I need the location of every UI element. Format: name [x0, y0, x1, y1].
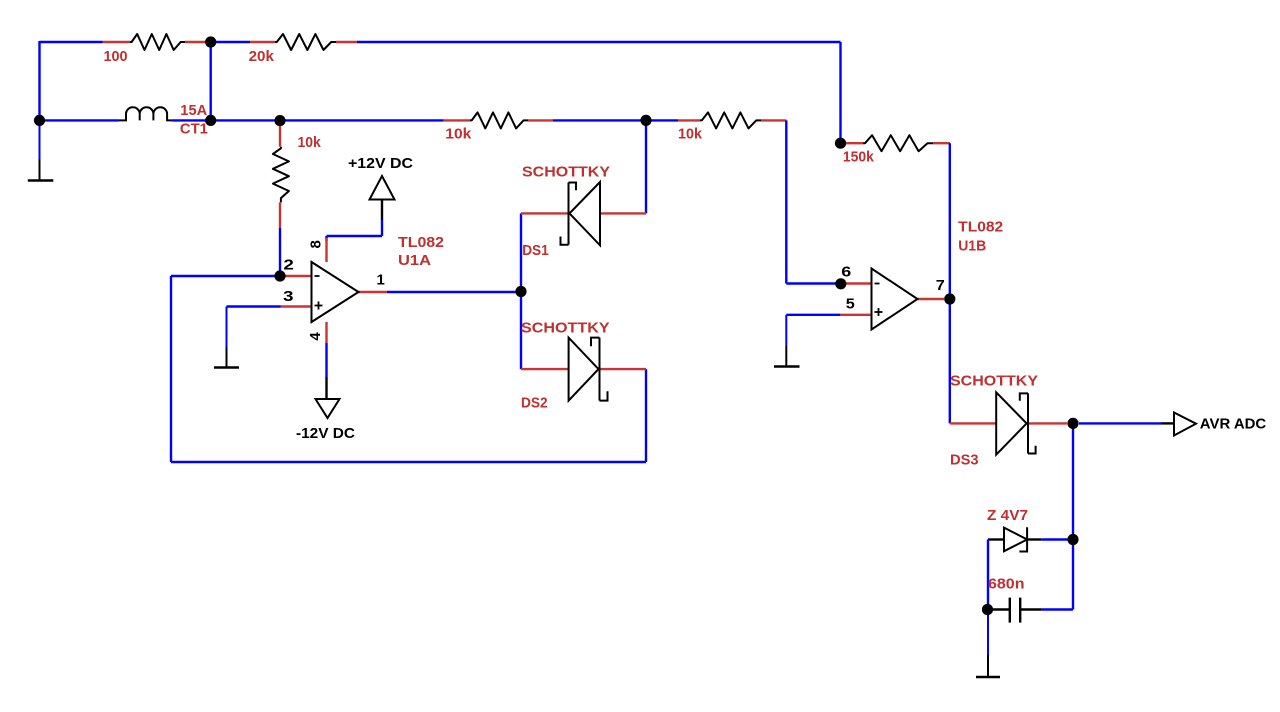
svg-text:8: 8: [308, 240, 325, 248]
svg-text:3: 3: [283, 288, 294, 305]
svg-text:SCHOTTKY: SCHOTTKY: [522, 163, 610, 180]
svg-text:Z 4V7: Z 4V7: [987, 507, 1028, 524]
svg-text:U1B: U1B: [958, 238, 986, 255]
svg-text:-12V DC: -12V DC: [296, 425, 355, 442]
svg-text:AVR ADC: AVR ADC: [1200, 415, 1267, 432]
svg-text:U1A: U1A: [398, 252, 431, 269]
svg-text:DS3: DS3: [950, 451, 979, 468]
svg-text:TL082: TL082: [398, 234, 444, 251]
svg-text:+12V DC: +12V DC: [348, 155, 413, 172]
svg-text:2: 2: [283, 257, 294, 274]
svg-text:10k: 10k: [298, 134, 322, 151]
svg-text:5: 5: [846, 295, 855, 312]
svg-text:SCHOTTKY: SCHOTTKY: [521, 319, 610, 336]
svg-text:10k: 10k: [678, 126, 703, 143]
svg-text:680n: 680n: [988, 575, 1025, 592]
svg-text:SCHOTTKY: SCHOTTKY: [950, 373, 1038, 390]
svg-text:15A: 15A: [180, 102, 207, 119]
svg-text:4: 4: [307, 332, 324, 341]
svg-text:20k: 20k: [249, 48, 275, 65]
svg-text:TL082: TL082: [958, 219, 1003, 236]
svg-text:DS2: DS2: [521, 394, 548, 411]
svg-text:7: 7: [936, 277, 945, 294]
svg-text:CT1: CT1: [180, 121, 208, 138]
svg-text:150k: 150k: [843, 149, 875, 166]
svg-text:1: 1: [377, 272, 385, 289]
svg-text:100: 100: [104, 48, 128, 65]
svg-text:10k: 10k: [445, 126, 472, 143]
svg-text:6: 6: [841, 264, 851, 281]
svg-text:DS1: DS1: [522, 242, 549, 259]
